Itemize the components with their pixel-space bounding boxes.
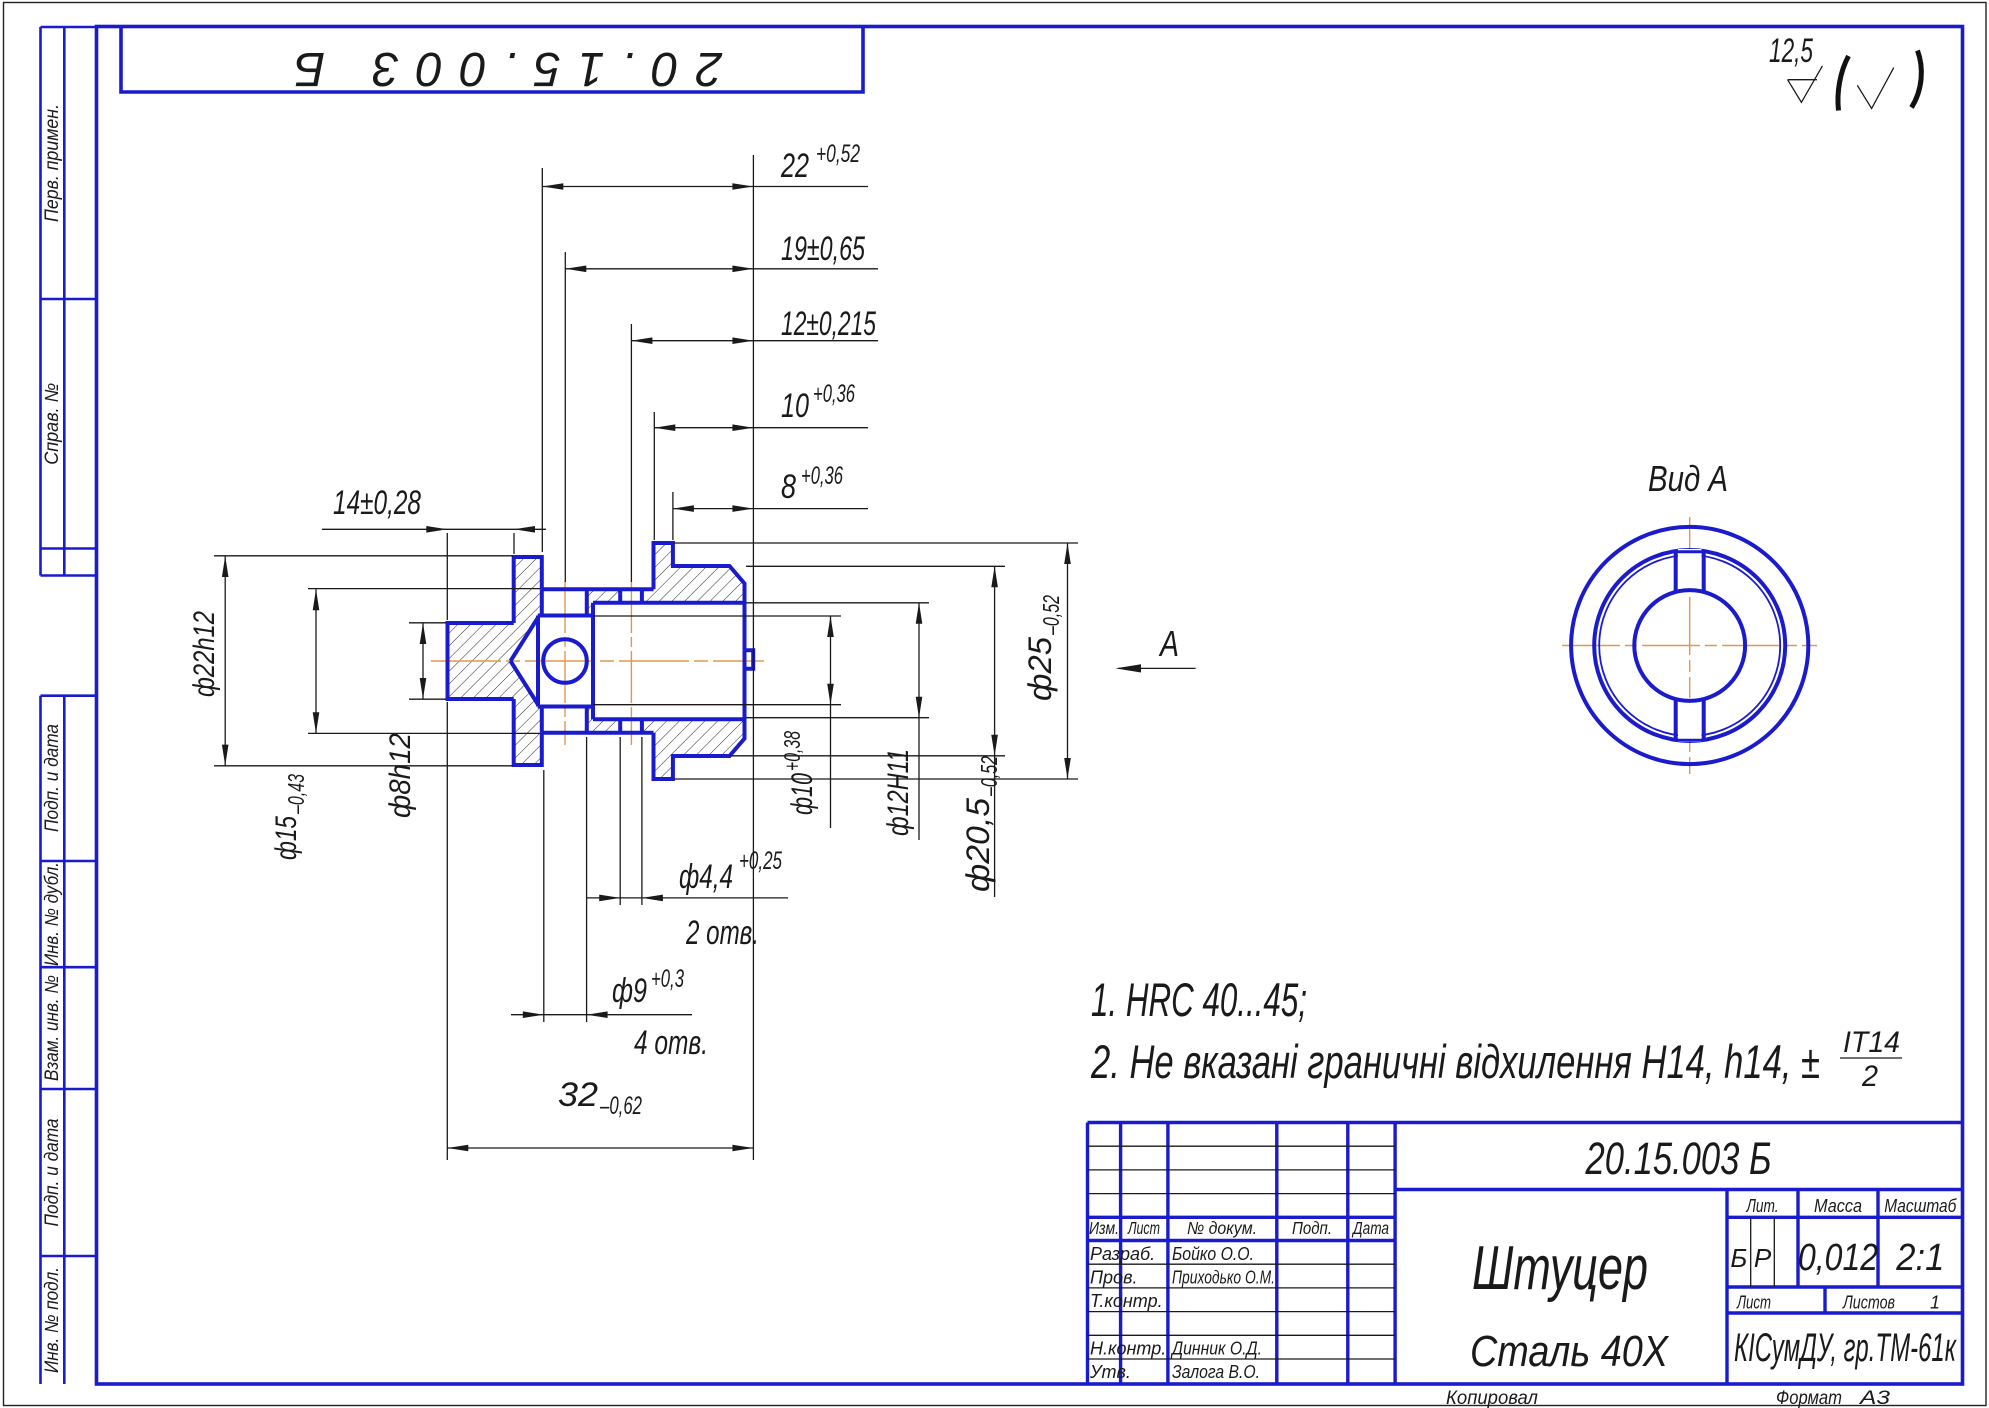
svg-text:№ докум.: № докум. bbox=[1187, 1218, 1257, 1238]
svg-text:32: 32 bbox=[558, 1076, 598, 1114]
signature rows bbox=[1089, 1244, 1275, 1382]
centerline main axis bbox=[431, 581, 764, 745]
hatch: hex flange bbox=[514, 557, 542, 765]
hatch: neck cell lower right bbox=[642, 719, 654, 733]
svg-text:Масштаб: Масштаб bbox=[1884, 1196, 1957, 1216]
dimension 19 bbox=[565, 230, 878, 272]
svg-text:Инв. № подл.: Инв. № подл. bbox=[42, 1267, 63, 1373]
dimension 8 bbox=[673, 462, 868, 512]
svg-text:Залога В.О.: Залога В.О. bbox=[1172, 1362, 1260, 1382]
svg-text:Т.контр.: Т.контр. bbox=[1090, 1291, 1163, 1311]
dimension 32 bbox=[447, 1076, 753, 1151]
svg-text:Справ. №: Справ. № bbox=[42, 383, 63, 465]
svg-text:+0,52: +0,52 bbox=[816, 140, 860, 168]
view A middle circle thin bbox=[1599, 555, 1780, 736]
svg-text:Взам. инв. №: Взам. инв. № bbox=[42, 975, 63, 1081]
hatch: neck cell lower left bbox=[587, 707, 620, 733]
svg-text:2. Не вказані граничні відхиле: 2. Не вказані граничні відхилення Н14, h… bbox=[1090, 1035, 1820, 1088]
internal bore lines bbox=[593, 603, 745, 719]
groove walls bbox=[542, 589, 587, 733]
view A slot lower bbox=[1676, 700, 1704, 741]
header Изм Лист № докум Подп Дата bbox=[1089, 1218, 1389, 1238]
svg-text:12,5: 12,5 bbox=[1769, 32, 1813, 70]
dimension ф12H11 bbox=[882, 603, 922, 840]
dimension ф22h12 bbox=[188, 556, 229, 766]
svg-text:ф9: ф9 bbox=[612, 972, 647, 1010]
svg-text:Инв. № дубл.: Инв. № дубл. bbox=[42, 862, 63, 966]
svg-text:–0,52: –0,52 bbox=[1038, 595, 1064, 636]
svg-text:Подп.: Подп. bbox=[1292, 1218, 1332, 1238]
view A middle circle thick bbox=[1594, 550, 1785, 741]
dimension ф20,5 bbox=[960, 566, 1002, 897]
svg-text:ф22h12: ф22h12 bbox=[188, 611, 221, 697]
view A bore circle bbox=[1634, 590, 1745, 701]
dimension 22 bbox=[542, 140, 868, 190]
svg-text:Формат: Формат bbox=[1776, 1388, 1842, 1408]
svg-text:Подп. и дата: Подп. и дата bbox=[42, 724, 63, 832]
centerline hole ф4.4 bbox=[630, 581, 632, 745]
dimension 12 bbox=[631, 305, 878, 344]
svg-text:Утв.: Утв. bbox=[1089, 1362, 1131, 1382]
svg-text:2:1: 2:1 bbox=[1895, 1237, 1944, 1279]
svg-text:Н.контр.: Н.контр. bbox=[1090, 1339, 1166, 1359]
svg-text:Сталь 40Х: Сталь 40Х bbox=[1470, 1327, 1669, 1376]
svg-text:+0,25: +0,25 bbox=[739, 847, 782, 875]
svg-text:Изм.: Изм. bbox=[1089, 1218, 1119, 1238]
svg-text:КІСумДУ, гр.ТМ-61к: КІСумДУ, гр.ТМ-61к bbox=[1734, 1326, 1957, 1370]
part outline: hex flange bbox=[514, 557, 542, 765]
svg-text:14±0,28: 14±0,28 bbox=[333, 484, 421, 522]
svg-text:Дата: Дата bbox=[1351, 1218, 1389, 1238]
svg-text:ф12H11: ф12H11 bbox=[882, 749, 915, 836]
Лит Масса Масштаб labels bbox=[1746, 1196, 1957, 1216]
extension lines horizontal bbox=[214, 543, 1078, 779]
svg-text:+0,3: +0,3 bbox=[651, 965, 684, 993]
svg-text:Приходько О.М.: Приходько О.М. bbox=[1172, 1268, 1275, 1288]
svg-text:ф4,4: ф4,4 bbox=[679, 858, 733, 896]
dimension ф4,4 2 отв. bbox=[587, 847, 788, 952]
hatch: left cylinder body bbox=[448, 623, 514, 699]
svg-text:10: 10 bbox=[781, 387, 809, 425]
svg-text:ф20,5: ф20,5 bbox=[960, 798, 996, 892]
svg-text:1. HRC 40...45;: 1. HRC 40...45; bbox=[1091, 973, 1307, 1026]
dimension 10 bbox=[654, 380, 868, 431]
parenthesis right bbox=[1912, 51, 1922, 108]
parenthesis left bbox=[1838, 56, 1849, 111]
hole ф9 circle bbox=[543, 639, 587, 683]
svg-text:Вид А: Вид А bbox=[1648, 458, 1728, 499]
svg-text:20.15.003 Б: 20.15.003 Б bbox=[277, 42, 723, 95]
svg-text:Динник О.Д.: Динник О.Д. bbox=[1170, 1339, 1262, 1359]
svg-text:+0,36: +0,36 bbox=[801, 462, 843, 490]
svg-text:Лист: Лист bbox=[1127, 1218, 1160, 1238]
svg-text:Б: Б bbox=[1730, 1243, 1747, 1273]
svg-text:Листов: Листов bbox=[1842, 1293, 1895, 1313]
svg-text:Лит.: Лит. bbox=[1746, 1196, 1779, 1216]
top stamp box bbox=[121, 27, 863, 93]
view A outer circle bbox=[1571, 527, 1808, 764]
svg-text:20.15.003 Б: 20.15.003 Б bbox=[1585, 1133, 1772, 1184]
roughness symbol (removal of material) bbox=[1788, 66, 1823, 103]
svg-text:А3: А3 bbox=[1859, 1388, 1891, 1408]
hatch: neck cell upper right bbox=[642, 589, 654, 603]
right flange outline bbox=[654, 543, 745, 779]
svg-text:ф8h12: ф8h12 bbox=[384, 733, 417, 818]
svg-text:Подп. и дата: Подп. и дата bbox=[42, 1119, 63, 1227]
Лист Листов row bbox=[1736, 1293, 1940, 1313]
Копировал / Формат bbox=[1446, 1388, 1891, 1408]
white strip of central block over hex bbox=[538, 616, 543, 707]
view A centerlines bbox=[1562, 517, 1817, 774]
svg-text:ф15: ф15 bbox=[270, 816, 303, 860]
dimension ф10 bbox=[779, 616, 834, 828]
svg-text:8: 8 bbox=[781, 468, 796, 506]
dimension ф9 4 отв. bbox=[511, 965, 708, 1062]
svg-text:Штуцер: Штуцер bbox=[1472, 1234, 1648, 1303]
neck outer lines bbox=[542, 589, 654, 733]
svg-text:Пров.: Пров. bbox=[1090, 1268, 1137, 1288]
svg-text:Разраб.: Разраб. bbox=[1090, 1244, 1155, 1264]
svg-text:–0,62: –0,62 bbox=[599, 1092, 642, 1120]
extension lines vertical bbox=[447, 155, 753, 1160]
svg-text:Р: Р bbox=[1754, 1243, 1772, 1273]
svg-text:А: А bbox=[1158, 623, 1179, 664]
part outline: chamfer cone bbox=[511, 616, 539, 707]
part outline: central block and groove bottom bbox=[538, 603, 593, 719]
svg-text:IT14: IT14 bbox=[1843, 1026, 1900, 1059]
top stamp text 20.15.003 Б (rotated 180) bbox=[277, 42, 723, 95]
hatch: right flange lower bbox=[654, 719, 745, 779]
view A slot white cutouts bbox=[1678, 549, 1702, 593]
svg-text:22: 22 bbox=[780, 147, 809, 185]
svg-text:19±0,65: 19±0,65 bbox=[781, 230, 865, 268]
svg-text:ф25: ф25 bbox=[1022, 637, 1058, 701]
sidebar column lines upper bbox=[41, 27, 97, 576]
svg-text:+0,38: +0,38 bbox=[779, 731, 805, 771]
fraction IT14/2 bbox=[1840, 1026, 1902, 1093]
svg-text:–0,52: –0,52 bbox=[976, 756, 1002, 797]
svg-text:Бойко О.О.: Бойко О.О. bbox=[1172, 1244, 1254, 1264]
svg-text:Лист: Лист bbox=[1736, 1293, 1771, 1313]
title block minor lines bbox=[1088, 1146, 1775, 1359]
svg-text:2 отв.: 2 отв. bbox=[685, 914, 759, 952]
part outline: left cylinder bbox=[448, 543, 754, 779]
view A slot upper bbox=[1676, 552, 1704, 593]
svg-text:12±0,215: 12±0,215 bbox=[781, 305, 876, 343]
view arrow A bbox=[1116, 623, 1196, 673]
svg-text:0,012: 0,012 bbox=[1798, 1237, 1878, 1279]
svg-text:+0,36: +0,36 bbox=[813, 380, 855, 408]
svg-text:Перв. примен.: Перв. примен. bbox=[42, 104, 63, 222]
right end spigot bbox=[745, 650, 754, 669]
check mark in parentheses bbox=[1857, 68, 1894, 109]
hatch: right flange upper bbox=[654, 543, 745, 603]
centerline hole ф9 bbox=[564, 581, 566, 745]
svg-text:1: 1 bbox=[1930, 1293, 1940, 1313]
hole ф4.4 edges bbox=[620, 589, 642, 733]
dimension ф15 bbox=[270, 589, 319, 860]
svg-text:ф10: ф10 bbox=[786, 773, 819, 815]
svg-text:Масса: Масса bbox=[1814, 1196, 1862, 1216]
svg-text:2: 2 bbox=[1861, 1060, 1878, 1093]
svg-text:Копировал: Копировал bbox=[1446, 1388, 1538, 1408]
sidebar column lines lower bbox=[41, 696, 97, 1384]
title block major lines bbox=[1088, 1123, 1963, 1385]
dimension ф25 bbox=[1022, 543, 1071, 779]
hatch: neck cell upper left bbox=[587, 589, 620, 615]
dimension ф8h12 bbox=[384, 623, 426, 818]
dimension 14 bbox=[322, 484, 546, 533]
svg-text:–0,43: –0,43 bbox=[283, 774, 309, 815]
svg-text:4 отв.: 4 отв. bbox=[634, 1024, 708, 1062]
